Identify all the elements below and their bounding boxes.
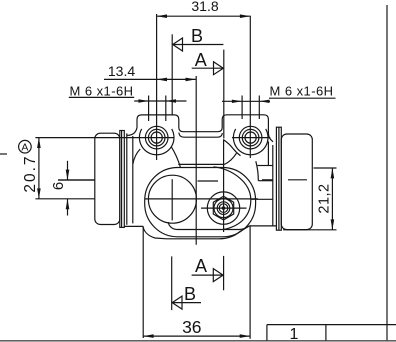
section arrow B bottom xyxy=(172,256,201,310)
svg-text:1: 1 xyxy=(290,326,299,342)
left ear xyxy=(129,115,273,142)
svg-text:21,2: 21,2 xyxy=(317,183,333,213)
bleeder crosshair xyxy=(201,207,247,209)
svg-text:13.4: 13.4 xyxy=(108,63,135,79)
right hole circles xyxy=(239,126,262,149)
body bottom-left edge xyxy=(124,225,143,227)
bleeder boss circle xyxy=(207,192,239,224)
snail boss arc around bleeder xyxy=(214,167,251,230)
dimension 13.4 xyxy=(104,76,196,245)
svg-text:M 6 x1-6H: M 6 x1-6H xyxy=(70,84,134,99)
left ear boss arc xyxy=(139,129,174,155)
bleeder circles xyxy=(214,199,233,218)
right ring xyxy=(276,127,281,230)
wire frame right border xyxy=(386,5,388,341)
outlet boss right xyxy=(258,180,273,182)
svg-text:20.7: 20.7 xyxy=(22,155,39,193)
valley lower web line xyxy=(179,133,222,138)
svg-text:B: B xyxy=(184,284,196,304)
outlet upper fillet xyxy=(256,161,259,181)
right bore axis stub xyxy=(288,179,307,181)
dimension 20.7 xyxy=(35,138,173,199)
svg-text:A: A xyxy=(21,142,28,154)
body right face xyxy=(272,145,274,226)
inner pad bottom xyxy=(168,222,249,230)
inner pad top xyxy=(198,180,219,182)
svg-text:A: A xyxy=(195,256,207,276)
right ear lower edge xyxy=(267,142,269,166)
main axis centerline xyxy=(145,198,258,200)
left bore axis stub xyxy=(58,179,95,181)
fillet valley to right boss xyxy=(223,140,240,156)
section arrow A bottom xyxy=(192,256,224,290)
svg-text:B: B xyxy=(191,26,203,46)
left boot ring xyxy=(120,131,125,228)
body top-left edge xyxy=(127,134,130,136)
big bore vertical centerline xyxy=(171,179,173,220)
section arrow A top xyxy=(192,50,224,139)
svg-text:A: A xyxy=(195,50,207,70)
svg-text:M 6 x1-6H: M 6 x1-6H xyxy=(270,84,334,99)
title block xyxy=(267,325,396,341)
bleeder hexagon xyxy=(213,196,233,220)
dimension 6 xyxy=(58,161,95,216)
right ear boss arc xyxy=(233,129,268,155)
right hole centerline horizontal xyxy=(232,137,270,139)
body left face xyxy=(126,133,128,224)
stadium face outline xyxy=(145,168,256,237)
svg-text:36: 36 xyxy=(182,317,201,337)
left hole circles xyxy=(145,126,168,149)
dimension 31.8 xyxy=(157,14,251,160)
section arrow B top xyxy=(172,34,223,115)
deck fillet to left boss xyxy=(171,147,180,168)
svg-text:31.8: 31.8 xyxy=(191,0,218,14)
right boot cap xyxy=(281,134,312,230)
wire frame bottom border xyxy=(0,340,396,342)
deck fillet to right boss xyxy=(225,153,237,164)
left boot cap xyxy=(95,133,120,224)
left flank curve xyxy=(133,149,140,164)
datum leader tick xyxy=(0,153,7,155)
deck edge between ears xyxy=(178,163,224,165)
big bore circle xyxy=(148,175,196,223)
dimension 21,2 xyxy=(283,168,337,230)
datum symbol A circled xyxy=(19,140,32,153)
bottom silhouette xyxy=(143,226,276,239)
right ledge xyxy=(258,165,273,167)
svg-text:6: 6 xyxy=(50,182,67,190)
dimension 36 xyxy=(143,226,250,339)
